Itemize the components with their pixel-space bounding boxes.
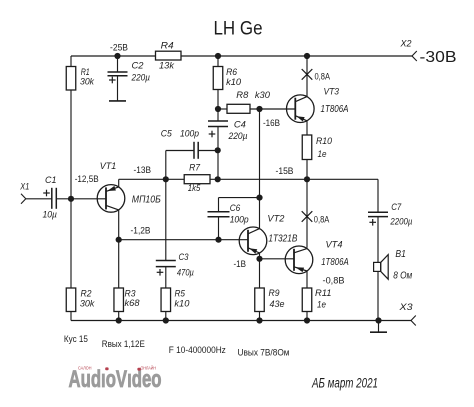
junction R11/bottom: [304, 317, 310, 323]
svg-text:VT4: VT4: [326, 240, 343, 251]
wire C5 node to R7 right: [217, 151, 219, 180]
ground stub: [378, 321, 380, 332]
svg-text:C7: C7: [391, 202, 402, 213]
svg-text:САЛОН: САЛОН: [78, 366, 92, 371]
resistor R4: [156, 51, 182, 60]
svg-text:1k5: 1k5: [188, 183, 201, 194]
wire R8 left lead: [218, 108, 227, 110]
capacitor C2: [108, 71, 128, 73]
svg-text:-13В: -13В: [134, 165, 152, 175]
connector X1: [21, 194, 26, 199]
svg-text:R7: R7: [189, 163, 201, 174]
capacitor C7: [368, 211, 388, 213]
svg-text:X1: X1: [19, 182, 29, 192]
ground under C2: [109, 100, 126, 102]
svg-text:-30В: -30В: [420, 49, 457, 66]
svg-text:100p: 100p: [230, 214, 249, 225]
wire top rail right segment (-30V): [181, 55, 412, 57]
junction R3/bottom: [116, 317, 122, 323]
svg-text:1Т806А: 1Т806А: [321, 103, 349, 115]
wire C6 bottom to base line: [218, 217, 220, 240]
svg-text:0,8А: 0,8А: [315, 71, 331, 81]
junction R5/bottom: [163, 317, 169, 323]
wire node to R3: [118, 240, 120, 288]
wire C2 to ground bar: [117, 76, 119, 101]
capacitor C5: [193, 142, 195, 159]
resistor R10: [302, 135, 312, 160]
wire -13V segment: [119, 178, 185, 180]
wire R3 to bottom line: [118, 312, 120, 321]
fuse 0,8A upper: [302, 69, 313, 80]
svg-text:Кус 15: Кус 15: [64, 334, 88, 345]
svg-text:Rвых 1,12Е: Rвых 1,12Е: [102, 339, 145, 350]
wire to VT4 base: [260, 258, 295, 260]
svg-text:2200µ: 2200µ: [390, 217, 413, 228]
svg-text:C2: C2: [132, 61, 145, 72]
capacitor C4: [208, 120, 228, 122]
svg-text:-15В: -15В: [276, 166, 294, 176]
svg-text:C1: C1: [45, 175, 57, 186]
junction R7 left / feedback: [163, 176, 169, 182]
wire bottom common line: [71, 320, 411, 322]
svg-text:30k: 30k: [80, 299, 96, 310]
svg-text:30k: 30k: [80, 77, 95, 88]
AudioVideo watermark logo: [69, 366, 162, 393]
wire R9 to bottom line: [259, 312, 261, 321]
svg-text:100p: 100p: [180, 129, 199, 140]
wire R2 to bottom line: [70, 312, 72, 321]
wire C6 top jog: [219, 197, 260, 199]
capacitor C6: [208, 211, 230, 213]
svg-text:470µ: 470µ: [177, 268, 194, 279]
junction VT1 emitter node -1,2V: [116, 237, 122, 243]
svg-text:-25В: -25В: [110, 42, 128, 52]
transistor VT1: [97, 185, 125, 213]
svg-text:R9: R9: [269, 288, 281, 299]
svg-text:-0,8В: -0,8В: [323, 276, 345, 286]
svg-text:VT1: VT1: [100, 161, 117, 172]
wire VT4 emitter to R11: [306, 271, 308, 288]
resistor R3: [114, 288, 124, 312]
wire C5 right lead: [198, 150, 218, 152]
resistor R9: [255, 288, 265, 312]
wire top rail left segment (-25V node): [71, 55, 156, 57]
junction VT3/top rail: [304, 53, 310, 59]
junction R9/bottom: [256, 317, 262, 323]
wire -1,2V line to VT2 base: [119, 239, 248, 241]
svg-text:-1В: -1В: [234, 259, 247, 269]
junction input/R1/R2: [68, 196, 74, 202]
wire rail to C2: [117, 56, 119, 72]
wire C1 to VT1 base: [56, 198, 106, 200]
resistor R7: [184, 175, 210, 184]
wire R11 to bottom line: [306, 312, 308, 321]
svg-text:C3: C3: [179, 252, 190, 263]
transistor VT3: [287, 95, 315, 123]
connector X3: [411, 316, 416, 321]
junction C6 bottom: [215, 237, 221, 243]
resistor R2: [66, 288, 76, 312]
svg-text:k68: k68: [125, 298, 141, 309]
capacitor C1: [51, 188, 53, 209]
svg-text:-16В: -16В: [263, 118, 280, 128]
resistor R5: [161, 288, 171, 312]
wire -15V output segment: [210, 178, 378, 180]
resistor R6: [213, 67, 223, 90]
wire feedback down to C3 crossing -1,2V line: [165, 179, 167, 260]
wire C5 left lead: [166, 150, 194, 152]
wire VT2 emitter down: [259, 253, 261, 288]
wire R8 to VT3 base: [250, 108, 295, 110]
resistor R1: [66, 67, 76, 91]
svg-text:C6: C6: [230, 203, 241, 214]
transistor VT2: [239, 227, 267, 255]
wire VT1 collector (bottom) to -1,2V line: [118, 210, 120, 240]
svg-text:R8: R8: [236, 90, 249, 101]
svg-text:C5: C5: [161, 129, 173, 140]
junction R7 right / C4: [215, 176, 221, 182]
resistor R11: [302, 288, 312, 312]
svg-text:10µ: 10µ: [43, 209, 58, 220]
svg-text:F 10-400000Hz: F 10-400000Hz: [169, 345, 226, 356]
junction R8/VT2 collector: [256, 106, 262, 112]
wire C4 to C5 node: [217, 127, 219, 151]
svg-text:R10: R10: [316, 136, 333, 147]
junction VT3 emitter branch / output: [304, 176, 310, 182]
wire R5 to bottom line: [165, 312, 167, 321]
connector X2: [412, 51, 417, 56]
wire rail to fuse/VT3 collector: [306, 56, 308, 97]
svg-text:Uвых 7В/8Ом: Uвых 7В/8Ом: [238, 348, 290, 359]
svg-text:-1,2В: -1,2В: [131, 226, 151, 236]
wire C7 to speaker: [377, 217, 379, 263]
wire C6 riser: [218, 198, 220, 212]
svg-text:X2: X2: [400, 39, 412, 49]
ground symbol: [370, 331, 387, 333]
junction C6 top: [256, 195, 262, 201]
svg-text:220µ: 220µ: [228, 131, 248, 142]
wire VT2 collector column: [259, 109, 261, 229]
svg-text:LH Ge: LH Ge: [214, 19, 263, 40]
wire R1 to input node: [70, 90, 72, 199]
svg-text:C4: C4: [234, 120, 246, 131]
svg-text:VT2: VT2: [267, 214, 285, 225]
wire output line to fuse/VT4 collector: [306, 179, 308, 248]
resistor R8: [227, 104, 250, 113]
wire R10 to output line: [306, 160, 308, 180]
transistor VT4: [285, 246, 313, 274]
svg-text:ОНЛАЙН: ОНЛАЙН: [141, 366, 157, 371]
svg-text:13k: 13k: [159, 61, 175, 72]
wire speaker to bottom line: [377, 271, 379, 320]
svg-text:X3: X3: [398, 302, 412, 312]
svg-text:220µ: 220µ: [131, 73, 151, 84]
svg-text:1е: 1е: [318, 149, 327, 160]
svg-text:k30: k30: [255, 90, 271, 101]
wire R6 to R8 node: [217, 90, 219, 110]
wire X1 to C1: [26, 198, 52, 200]
junction C2/top rail: [114, 53, 120, 59]
svg-text:АБ март 2021: АБ март 2021: [311, 375, 378, 390]
svg-text:0,8А: 0,8А: [314, 214, 330, 224]
svg-text:k10: k10: [174, 299, 190, 310]
svg-text:8 Ом: 8 Ом: [393, 269, 412, 281]
svg-text:1Т321В: 1Т321В: [268, 232, 297, 244]
speaker B1: [374, 262, 381, 271]
junction C4/C5: [215, 147, 221, 153]
svg-text:1Т806А: 1Т806А: [321, 256, 349, 268]
svg-text:1е: 1е: [317, 300, 326, 311]
wire output corner down to C7: [377, 179, 379, 212]
junction R6/R8/C4: [215, 106, 221, 112]
wire VT1 emitter (top) to -13V line: [118, 179, 120, 187]
wire node to C4: [217, 109, 219, 121]
svg-text:VT3: VT3: [324, 87, 340, 98]
junction speaker/ground/bottom: [375, 317, 381, 323]
junction VT2 emitter/VT4 base/R9: [256, 256, 262, 262]
svg-text:B1: B1: [395, 248, 406, 260]
capacitor C3: [156, 260, 176, 262]
svg-text:МП10Б: МП10Б: [132, 194, 161, 206]
svg-text:-12,5В: -12,5В: [75, 174, 99, 184]
svg-text:R11: R11: [315, 288, 332, 299]
svg-text:R4: R4: [161, 40, 174, 51]
junction R6/top rail: [215, 53, 221, 59]
svg-text:43е: 43е: [270, 299, 285, 310]
wire C3 to R5: [165, 267, 167, 288]
wire VT3 emitter to R10: [306, 121, 308, 135]
wire C5 left down to R7 left: [165, 151, 167, 180]
wire rail to R6: [217, 56, 219, 67]
wire rail to R1: [70, 56, 72, 67]
wire input node to R2: [70, 199, 72, 288]
svg-text:k10: k10: [226, 77, 242, 88]
fuse 0,8A lower: [302, 211, 313, 222]
